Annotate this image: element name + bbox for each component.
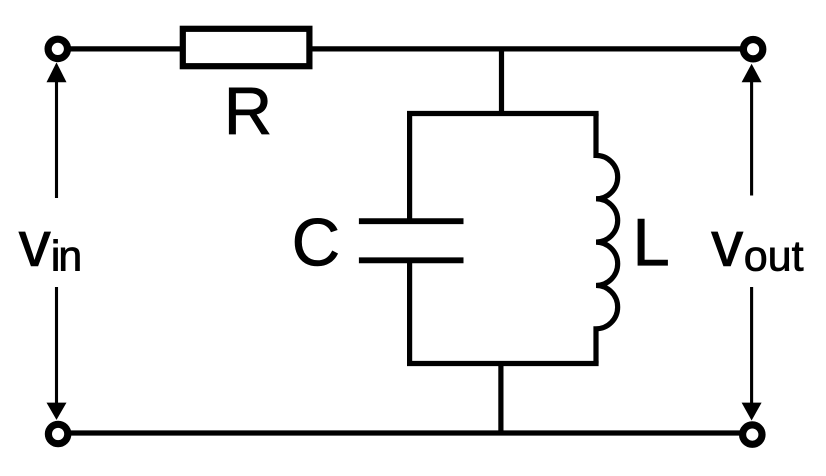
vout arrow shaft upper segment — [750, 80, 753, 196]
wire junction drop from top node to tank — [499, 49, 504, 114]
vin arrow shaft upper segment — [55, 80, 58, 198]
vin arrowhead down — [47, 403, 67, 420]
wire top-left: Vin+ terminal to resistor — [58, 46, 183, 51]
terminal node bottom-right — [743, 425, 762, 444]
label C — [295, 218, 337, 266]
label R — [229, 88, 269, 134]
wire: tank top edge (node between R, C and L) — [407, 111, 599, 116]
wire: capacitor branch upper lead — [407, 114, 412, 222]
label vout — [711, 232, 803, 271]
wire junction drop from tank bottom to bottom node — [498, 364, 503, 434]
wire: tank bottom edge (node joining C and L to bottom rail) — [407, 361, 599, 366]
label vin — [19, 232, 80, 271]
terminal node top-right — [743, 40, 762, 59]
terminal node top-left — [48, 39, 67, 58]
wire: capacitor branch lower lead — [407, 260, 412, 363]
capacitor C top plate — [359, 218, 464, 224]
vin arrow shaft lower segment — [55, 287, 58, 404]
label L — [638, 219, 668, 265]
vout arrow shaft lower segment — [750, 287, 753, 404]
vout arrowhead down — [742, 403, 762, 421]
vin arrowhead up — [47, 62, 67, 82]
inductor L (four-arc coil with leads) — [596, 114, 618, 364]
wire bottom rail — [58, 430, 752, 435]
resistor R — [183, 29, 310, 66]
capacitor C bottom plate — [359, 257, 464, 263]
vout arrowhead up — [742, 64, 762, 83]
terminal node bottom-left — [48, 424, 67, 443]
wire top-right: resistor to Vout+ terminal — [309, 46, 753, 51]
